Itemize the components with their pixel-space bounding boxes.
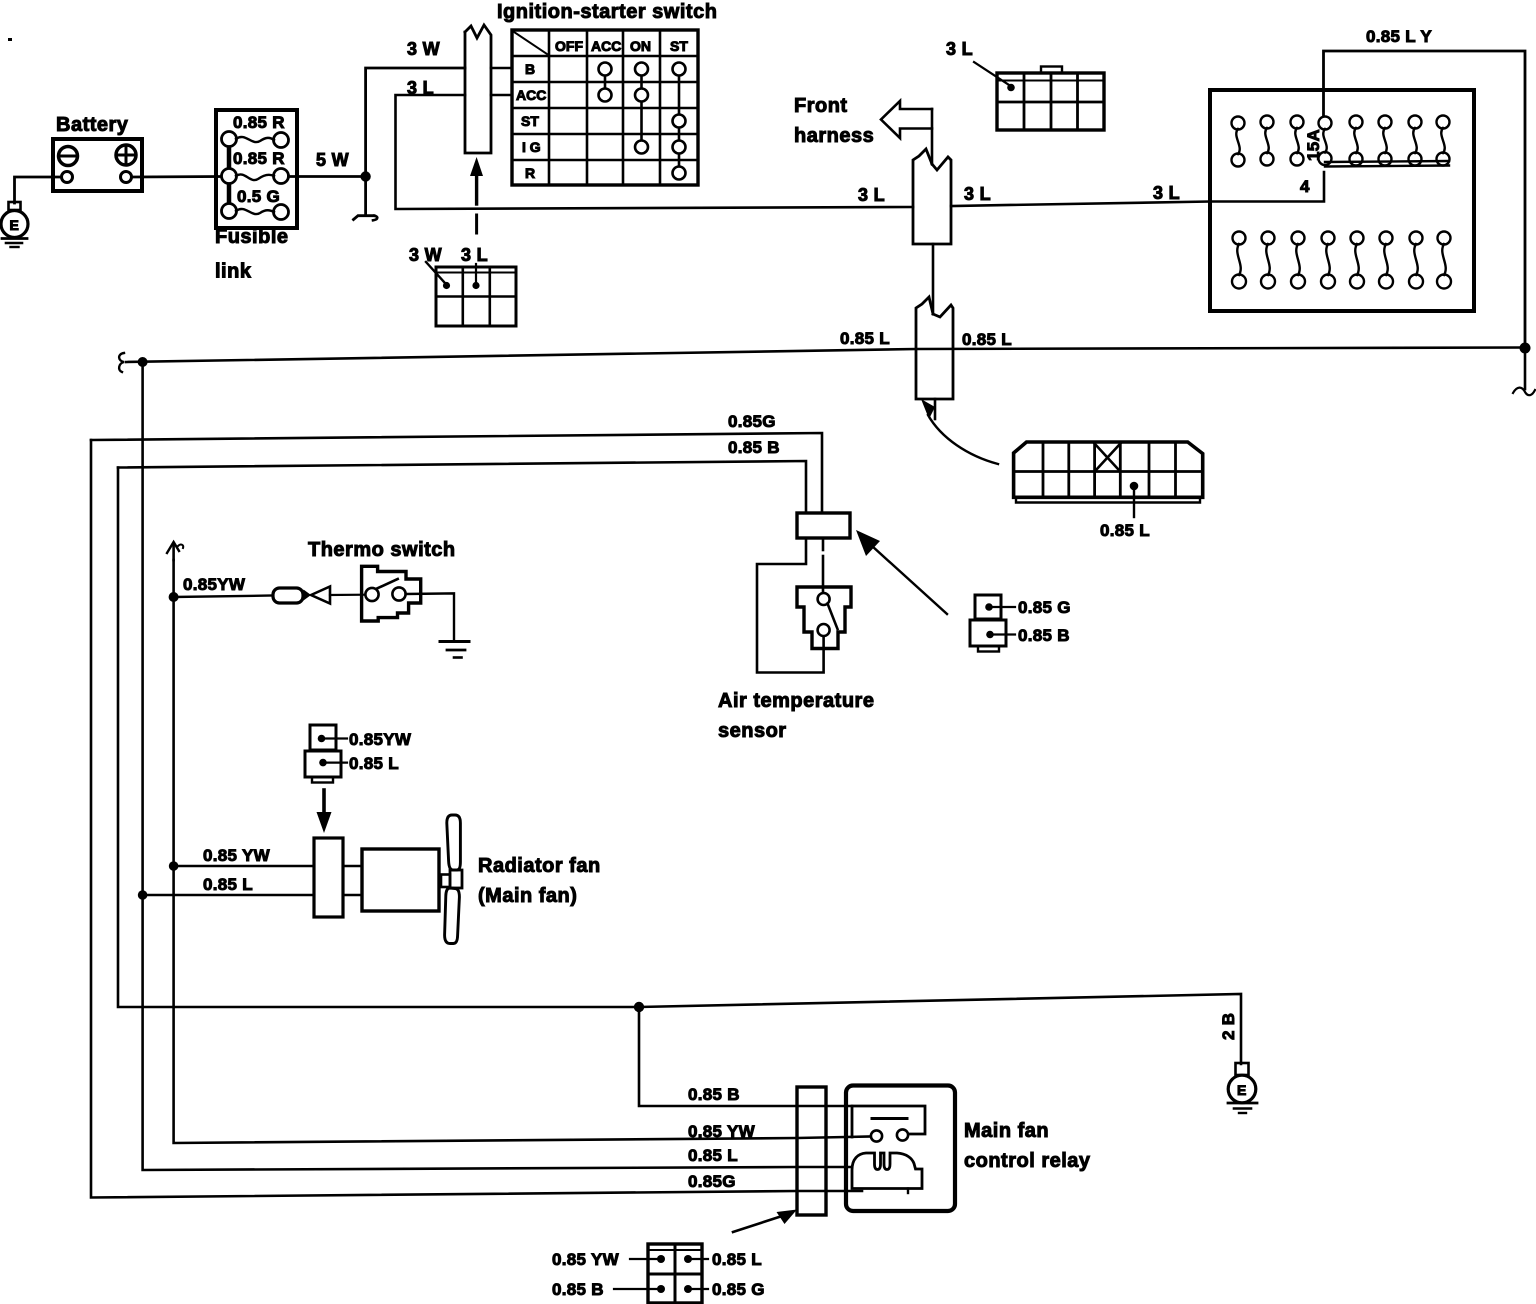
- svg-text:Ignition-starter switch: Ignition-starter switch: [497, 1, 717, 23]
- wire YW junction to inline fuse: [174, 596, 273, 598]
- svg-text:0.85 L: 0.85 L: [962, 330, 1012, 349]
- leader 3W: [426, 262, 445, 283]
- svg-text:0.85 L: 0.85 L: [349, 754, 399, 773]
- ignition-starter switch table U1: [497, 1, 717, 185]
- wire junction down to relay 0.85B: [639, 1007, 852, 1106]
- svg-text:ST: ST: [670, 38, 688, 54]
- switch body outline: [362, 566, 421, 621]
- pin dot 0.85L on connector C3: [1130, 482, 1139, 491]
- relay outline: [846, 1086, 955, 1212]
- wire to ground: [406, 593, 454, 641]
- sensor lead frame left: [757, 538, 824, 673]
- sensor body (stepped cup): [797, 587, 851, 649]
- svg-text:0.85YW: 0.85YW: [349, 730, 412, 749]
- svg-text:3 L: 3 L: [858, 185, 885, 205]
- node 2B junction: [634, 1002, 644, 1012]
- svg-text:5 W: 5 W: [316, 150, 349, 170]
- svg-text:3 W: 3 W: [407, 39, 440, 59]
- wire battery negative to ground E: [15, 177, 62, 203]
- connector strip at ignition switch (with break): [465, 25, 491, 153]
- wire 5W fusible to junction: [289, 175, 366, 178]
- svg-text:ON: ON: [630, 38, 651, 54]
- thermo switch TS: [174, 539, 469, 658]
- inline fuse (rounded box): [273, 588, 303, 603]
- svg-text:0.85 B: 0.85 B: [728, 438, 780, 457]
- wire 0.85L rail across: [119, 348, 1525, 373]
- fuse box FB: [1210, 90, 1474, 311]
- battery B1: [53, 114, 142, 191]
- fuse bus line (fuses 4-8): [1325, 161, 1449, 162]
- svg-text:3 L: 3 L: [1153, 183, 1180, 203]
- svg-text:Air temperature: Air temperature: [718, 690, 874, 712]
- connector strip (front harness, with notch): [913, 149, 951, 244]
- svg-text:ST: ST: [521, 113, 539, 129]
- svg-text:sensor: sensor: [718, 720, 787, 742]
- solid down arrow: [322, 790, 326, 814]
- svg-text:control relay: control relay: [964, 1150, 1091, 1172]
- callout arrow to sensor connector: [856, 530, 947, 614]
- wire stub below strip: [934, 399, 937, 419]
- svg-text:0.85 B: 0.85 B: [552, 1280, 604, 1299]
- svg-text:ACC: ACC: [591, 38, 621, 54]
- svg-text:15A: 15A: [1304, 129, 1323, 161]
- svg-text:0.85G: 0.85G: [728, 412, 776, 431]
- wire 0.85B horizontal to sensor connector: [118, 461, 806, 513]
- speck top-left: [8, 38, 12, 41]
- relay contact section: [852, 1106, 925, 1137]
- wire strip to table row B: [491, 67, 512, 70]
- node 0.85YW thermo junction: [169, 592, 179, 602]
- connector C2 4x2 grid (3L) top middle: [997, 67, 1104, 131]
- connector C3 7x2 chamfered grid: [1014, 442, 1203, 503]
- wire 0.85YW vertical (arrow top) down to relay: [167, 542, 871, 1143]
- bullet connector (bowtie): [304, 590, 312, 601]
- wire 0.85LY from fuse 4 up over to right edge and down: [1324, 51, 1526, 343]
- svg-text:0.85 B: 0.85 B: [688, 1085, 740, 1104]
- svg-text:Main fan: Main fan: [964, 1120, 1049, 1142]
- relay connector strip: [797, 1087, 826, 1215]
- svg-text:0.85 L: 0.85 L: [1100, 521, 1150, 540]
- curved arrow pointing to strip stub: [921, 399, 998, 464]
- svg-text:0.85 B: 0.85 B: [1018, 626, 1070, 645]
- svg-text:0.5 G: 0.5 G: [237, 187, 280, 206]
- wire junction up to 3W: [366, 68, 465, 177]
- svg-text:ACC: ACC: [516, 87, 546, 103]
- front harness block arrow: [794, 95, 932, 164]
- sensor connector block: [797, 513, 850, 538]
- fuses bottom row (8): [1232, 232, 1451, 289]
- fan hub: [441, 875, 450, 888]
- svg-text:Fusible: Fusible: [215, 226, 289, 248]
- connector C1 3x2 grid below ignition: [436, 267, 516, 326]
- svg-text:OFF: OFF: [555, 38, 583, 54]
- wire 0.85L to fan: [143, 894, 314, 896]
- wire below junction with break squiggle: [1524, 348, 1527, 389]
- svg-text:0.85 G: 0.85 G: [712, 1280, 765, 1299]
- arrow up into ignition strip: [470, 157, 483, 233]
- svg-text:3 L: 3 L: [407, 78, 434, 98]
- svg-text:0.85 L: 0.85 L: [203, 875, 253, 894]
- sensor lead center (with gap): [822, 538, 825, 550]
- node 5W junction: [360, 171, 370, 181]
- connector strip (0.85L, with notch): [916, 297, 953, 399]
- fan blade lower: [445, 888, 460, 944]
- wire 0.85G left vertical down to relay: [91, 440, 862, 1198]
- svg-text:Front: Front: [794, 95, 848, 117]
- svg-text:0.85 L: 0.85 L: [688, 1146, 738, 1165]
- wire strip to table row ACC: [491, 94, 512, 97]
- svg-text:3 L: 3 L: [461, 245, 488, 265]
- svg-text:0.85G: 0.85G: [688, 1172, 736, 1191]
- svg-text:4: 4: [1300, 177, 1310, 196]
- svg-text:0.85 R: 0.85 R: [233, 113, 285, 132]
- fan motor: [362, 849, 439, 911]
- wire 0.85G horizontal to sensor connector: [91, 433, 822, 513]
- wire 3L from ignition connector down and right (long rail): [396, 95, 914, 209]
- wire 0.85YW to fan: [174, 865, 314, 867]
- svg-text:3 L: 3 L: [946, 39, 973, 59]
- svg-text:0.85YW: 0.85YW: [183, 575, 246, 594]
- air temperature sensor assembly: [718, 513, 874, 742]
- node 0.85YW to radiator fan: [169, 861, 179, 871]
- svg-text:harness: harness: [794, 125, 874, 147]
- svg-text:(Main fan): (Main fan): [478, 885, 577, 907]
- fan connector strip: [314, 838, 343, 917]
- svg-text:0.85 YW: 0.85 YW: [552, 1250, 620, 1269]
- svg-text:0.85 L Y: 0.85 L Y: [1366, 27, 1432, 46]
- wire 0.85L left vertical down to relay: [143, 362, 852, 1170]
- svg-text:0.85 L: 0.85 L: [840, 329, 890, 348]
- pin connector callout (0.85YW/0.85L): [310, 725, 336, 750]
- svg-text:I G: I G: [522, 139, 541, 155]
- node 0.85L to radiator fan: [138, 890, 148, 900]
- svg-text:0.85 R: 0.85 R: [233, 149, 285, 168]
- svg-text:R: R: [525, 165, 535, 181]
- wire battery positive to fusible link: [132, 175, 222, 178]
- svg-text:Radiator fan: Radiator fan: [478, 855, 601, 877]
- radiator fan assembly: [143, 725, 601, 944]
- svg-text:link: link: [215, 261, 252, 283]
- node junction 0.85L/0.85LY right: [1520, 343, 1531, 354]
- ground E (body earth) left: [1, 202, 28, 247]
- wire between the two strips: [932, 244, 935, 314]
- svg-text:B: B: [525, 61, 535, 77]
- fan blade root: [450, 870, 462, 888]
- main fan control relay K1: [797, 1086, 1091, 1216]
- svg-text:0.85 G: 0.85 G: [1018, 598, 1071, 617]
- ground E (right, main fan relay): [1228, 1063, 1257, 1113]
- pin connector callout (0.85G/0.85B): [970, 595, 1071, 652]
- svg-text:0.85 YW: 0.85 YW: [203, 846, 271, 865]
- callout arrow to relay strip: [733, 1210, 797, 1233]
- svg-text:Thermo switch: Thermo switch: [308, 539, 456, 561]
- svg-text:0.85 L: 0.85 L: [712, 1250, 762, 1269]
- fuses top row (8): [1232, 116, 1450, 167]
- svg-text:E: E: [1237, 1082, 1246, 1098]
- svg-text:0.85 YW: 0.85 YW: [688, 1122, 756, 1141]
- leader 3L: [475, 264, 477, 284]
- fusible link FL: [215, 110, 297, 283]
- fan blade upper: [447, 815, 461, 870]
- wire 0.85B left vertical down to 2B rail: [118, 468, 1241, 1065]
- wire stub below junction with curled end: [364, 177, 367, 215]
- svg-text:Battery: Battery: [56, 114, 129, 136]
- relay coil: [852, 1153, 922, 1189]
- svg-text:2 B: 2 B: [1219, 1013, 1238, 1040]
- ground (thermo switch): [440, 640, 469, 643]
- connector C4 2x2 (bottom): [552, 1244, 765, 1303]
- svg-text:3 L: 3 L: [964, 184, 991, 204]
- wire 3L rail from strip to fuse box: [951, 172, 1324, 206]
- svg-text:E: E: [10, 217, 19, 233]
- wires strip to motor: [343, 865, 362, 867]
